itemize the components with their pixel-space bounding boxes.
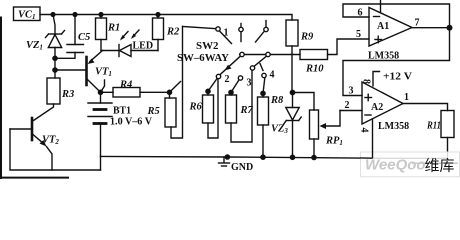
resistor R2 [153, 15, 164, 51]
svg-text:RP1: RP1 [325, 136, 343, 148]
svg-text:R10: R10 [305, 64, 324, 75]
switch contact 4 [262, 73, 266, 77]
transistor VT2 (NPN) [10, 118, 52, 170]
wire VZ1 bottom to R3 [54, 48, 56, 79]
svg-text:C5: C5 [78, 32, 90, 43]
switch wiper C to 2 [221, 56, 241, 74]
svg-text:R7: R7 [240, 105, 254, 116]
node VZ3 top [290, 90, 296, 96]
resistor R3 [47, 78, 60, 104]
wire ghost rail under watermark [373, 157, 448, 159]
wire SW2 pole2 common [240, 54, 300, 56]
svg-text:SW2: SW2 [196, 41, 219, 52]
svg-text:LM358: LM358 [378, 121, 409, 132]
node VT1 base junction [52, 67, 58, 73]
svg-text:VZ1: VZ1 [26, 40, 43, 52]
wire VZ3 to RP1 [293, 93, 315, 111]
resistor R9 [286, 20, 298, 93]
svg-text:2: 2 [225, 74, 230, 85]
node rail-VZ1 [50, 12, 55, 17]
capacitor C5 [55, 15, 84, 59]
battery BT1 [88, 92, 112, 170]
wire A2 pin2 [340, 110, 362, 112]
svg-text:3: 3 [349, 86, 354, 97]
watermark [360, 152, 460, 177]
switch contact 3 [238, 76, 242, 80]
node rail-C5 [72, 12, 77, 17]
VC1 terminal box [14, 7, 41, 21]
svg-text:R4: R4 [119, 80, 132, 91]
svg-text:8: 8 [360, 79, 371, 84]
switch contact 4 stem [260, 64, 263, 71]
ground [219, 157, 230, 166]
switch contact top middle [239, 24, 243, 42]
svg-text:7: 7 [415, 18, 420, 29]
svg-text:R1: R1 [107, 23, 120, 34]
svg-text:VT2: VT2 [42, 135, 59, 147]
switch lever R6 [208, 79, 217, 92]
wire bottom rail GND [101, 156, 373, 158]
node rail RP1 [311, 155, 317, 161]
LED arrows [120, 30, 139, 41]
switch wiper D [255, 56, 267, 66]
svg-text:3: 3 [247, 78, 252, 89]
resistor R10 [300, 39, 369, 60]
switch lever R8 [263, 78, 265, 93]
svg-text:VZ3: VZ3 [271, 124, 288, 136]
svg-text:A2: A2 [371, 102, 383, 113]
svg-text:2: 2 [345, 100, 350, 111]
node A1 output [447, 25, 453, 31]
switch lever pole1 wiper [170, 82, 181, 93]
svg-text:4: 4 [358, 128, 369, 133]
resistor R7 [226, 70, 253, 142]
node R8 top [260, 91, 266, 97]
svg-text:WeeQoo: WeeQoo [365, 157, 426, 174]
switch contact 1 [216, 27, 220, 31]
op-amp A1 [369, 1, 412, 47]
op-amp A2 [362, 82, 403, 124]
resistor R6 [203, 79, 219, 138]
svg-text:LED: LED [133, 41, 154, 52]
left scan border [0, 17, 2, 180]
node VZ1/C5 junction [52, 56, 58, 62]
switch contact top right [256, 21, 269, 43]
LED diode [101, 45, 158, 57]
svg-text:5: 5 [356, 29, 361, 40]
resistor R4 [101, 88, 170, 98]
wire rail tail over watermark [360, 157, 373, 159]
wire A2 output [403, 104, 448, 111]
wire VZ1 top lead [53, 15, 55, 35]
wire ghost R11 lead [447, 153, 449, 159]
+12V stub [373, 72, 380, 86]
svg-text:4: 4 [270, 70, 275, 81]
resistor R1 [96, 15, 107, 51]
node rail-R2 [155, 12, 160, 17]
node rail-R1 [98, 12, 103, 17]
wire A1 output [412, 27, 450, 29]
svg-text:R5: R5 [147, 106, 160, 117]
wire A1 out to A2 pin3 [343, 28, 450, 96]
svg-text:VC1: VC1 [18, 10, 36, 22]
resistor R5 [165, 27, 183, 139]
svg-text:BT1: BT1 [113, 106, 131, 117]
switch contact C [240, 52, 244, 56]
svg-text:SW–6WAY: SW–6WAY [177, 53, 230, 64]
switch contact 2 [216, 74, 220, 78]
node R4/R5/lever junction [167, 90, 173, 96]
resistor R11 [441, 111, 454, 153]
node VT1 collector / R4 / battery [98, 90, 104, 96]
wire top rail [40, 15, 292, 21]
svg-text:R9: R9 [300, 32, 314, 43]
transistor VT1 (PNP) [55, 51, 105, 93]
potentiometer RP1 [310, 110, 341, 158]
resistor R8 [258, 93, 269, 157]
switch lever from contact 1 [220, 31, 232, 44]
svg-text:1.0 V–6 V: 1.0 V–6 V [110, 117, 153, 128]
switch contact 25 [250, 66, 254, 70]
svg-text:+12 V: +12 V [383, 72, 413, 83]
node R6 top [205, 89, 211, 95]
wire R3 to VT2 collector [34, 104, 54, 121]
wire SW2 pole1 common [183, 27, 216, 29]
node rail GND [225, 154, 231, 160]
svg-text:GND: GND [231, 162, 253, 173]
switch contact D [266, 52, 270, 56]
svg-text:R2: R2 [166, 27, 180, 38]
svg-text:R11: R11 [426, 121, 441, 132]
svg-text:A1: A1 [377, 21, 389, 32]
node R7 top [228, 90, 234, 96]
wire A1 feedback [343, 4, 450, 28]
zener VZ1 [46, 31, 65, 48]
zener VZ3 [284, 93, 301, 158]
svg-text:VT1: VT1 [95, 67, 112, 79]
switch lever R7 [231, 80, 239, 92]
node rail R8 [260, 154, 266, 160]
svg-text:R3: R3 [61, 89, 74, 100]
svg-text:维库: 维库 [425, 158, 455, 175]
wire VT2 base loop [10, 129, 101, 170]
svg-text:R8: R8 [270, 95, 284, 106]
wire A2 pin4 stub tail [372, 152, 374, 159]
svg-text:1: 1 [404, 92, 409, 103]
wire A2 pin4 to gnd [372, 119, 374, 158]
svg-text:R6: R6 [189, 102, 203, 113]
node rail VZ3 [290, 155, 296, 161]
